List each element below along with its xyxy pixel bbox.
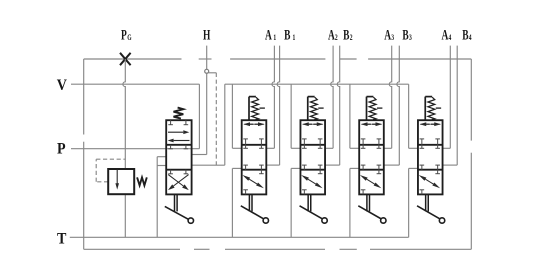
section 3 box2 top ticks [361,145,381,149]
svg-text:B: B [343,27,349,44]
svg-text:4: 4 [449,32,452,43]
relief valve spring [137,177,147,185]
label H [203,27,211,44]
wire relief pilot dashed [96,159,125,182]
section 3 box1 outward arrows [361,122,382,126]
section 4 box1 outward arrows [420,122,441,126]
section 1 lever arm [241,206,265,220]
label P [57,141,66,158]
section valve V1 body (3 positions) [242,120,267,194]
section valve V2 body (3 positions) [300,120,325,194]
section 3 return spring [367,97,383,121]
wire section 3 feed from V rail [350,84,359,148]
label A1 [265,27,276,44]
svg-text:3: 3 [409,32,412,43]
wire top rail segment 2 (H net) [199,58,212,60]
label B2 [343,27,353,44]
relief valve body [108,169,134,194]
section 2 box2 bottom ticks [302,165,322,170]
svg-text:A: A [442,27,449,44]
svg-text:B: B [402,27,408,44]
label B3 [402,27,412,44]
master box3 crossed arrows [168,175,189,191]
section 2 lever knob [322,218,327,223]
wire master right port to riser [192,164,225,166]
section 1 lever knob [263,218,268,223]
section 3 lever stem [367,194,370,211]
wire T rail [70,236,409,238]
wire V rail right segment [225,83,409,85]
wire top rail segment 5 [368,58,471,60]
section 2 lever arm [300,206,324,220]
wire top rail segment 1 (PG net) [84,58,182,60]
section 2 box2 top ticks [302,145,322,149]
wire A1 work line [266,46,274,149]
wire right frame vertical lower [470,153,472,250]
svg-text:1: 1 [273,32,276,43]
wire B3 work line [384,46,400,166]
svg-text:A: A [328,27,335,44]
svg-text:H: H [203,27,211,44]
section 1 box2 bottom ticks [243,165,263,170]
wire right frame vertical upper [470,59,472,141]
wire H vertical [206,73,208,154]
section valve V4 body (3 positions) [418,120,443,194]
svg-text:1: 1 [293,32,296,43]
label B4 [462,27,472,44]
wire B4 work line [443,46,458,166]
section 1 return spring [249,97,265,121]
wire section 2 feed from V rail [291,84,300,148]
section 4 lever stem [426,194,429,211]
wire H circle to pilot branch [209,72,217,74]
section 1 box1 outward arrows [243,122,264,126]
wire bottom rail seg5 [370,248,471,250]
svg-text:A: A [384,27,391,44]
wire H to master right port [192,154,207,156]
wire V-to-P drop [198,84,200,149]
section 3 box3 diagonal arrow [360,175,382,188]
master box1 arrow right [168,130,189,134]
master box2 ticks [168,145,188,149]
section 4 lever arm [417,206,441,220]
master spring [174,108,184,119]
wire H label line [206,46,208,70]
section 1 lever stem [249,194,252,211]
wire B2 work line [325,46,340,166]
svg-text:4: 4 [469,32,472,43]
wire V rail left segment [71,83,199,85]
wire top rail segment 4 [340,58,357,60]
plug X on PG line [120,53,131,65]
wire left frame vertical upper [83,59,85,135]
wire bottom rail seg1 [84,248,180,250]
svg-text:A: A [265,27,272,44]
label T [57,231,66,248]
master lever arm [165,206,190,219]
wire A2 work line [325,46,333,149]
section 4 box3 diagonal arrow [419,175,441,188]
section 1 box2 top ticks [243,145,263,149]
master valve body (3 positions) [166,120,191,194]
section 1 box3 diagonal arrow [242,175,264,188]
svg-text:2: 2 [335,32,338,43]
svg-text:G: G [127,32,132,43]
section 3 box2 bottom ticks [361,165,381,170]
label PG (gauge port) [121,27,132,44]
section 2 box1 outward arrows [302,122,323,126]
wire V chain riser [224,84,226,165]
section 2 lever stem [308,194,311,211]
wire H pilot dashed line [215,73,217,165]
wire section 1 drain to T rail [232,168,241,237]
svg-text:B: B [462,27,468,44]
section 3 box3 ticks [361,170,381,195]
node H plugged port circle [205,69,209,73]
wire section 1 feed from V rail [232,84,241,148]
wire bottom rail seg3 [225,248,325,250]
svg-text:V: V [57,77,67,94]
section 2 return spring [308,97,324,121]
relief valve flow arrow [115,170,119,190]
wire PG vertical (hops V rail) [123,59,125,169]
wire A4 work line [443,46,451,149]
label A4 [442,27,452,44]
master lever knob [188,218,193,223]
wire top rail segment 3 [230,58,325,60]
svg-text:P: P [121,27,127,44]
section 2 box3 ticks [302,170,322,195]
svg-text:T: T [57,231,66,248]
wire master left ports to drain [157,157,166,238]
label B1 [284,27,295,44]
section 4 lever knob [439,218,444,223]
wire bottom rail seg4 [340,248,357,250]
label V [57,77,67,94]
section 2 box1 bottom ticks [302,139,322,145]
section 4 box1 bottom ticks [420,139,440,145]
section 4 box3 ticks [420,170,440,195]
svg-text:B: B [284,27,290,44]
section 1 box1 bottom ticks [243,139,263,145]
section 4 box2 bottom ticks [420,165,440,170]
master box3 ticks [168,170,188,174]
section 4 return spring [425,97,441,121]
section 3 lever arm [358,206,382,220]
wire section 4 feed from V rail [409,84,418,148]
wire section 4 drain to T rail [409,168,418,237]
master box1 ticks [168,120,188,125]
wire section 3 drain to T rail [350,168,359,237]
label A2 [328,27,338,44]
wire section 2 drain to T rail [291,168,300,237]
wire P rail [71,148,199,150]
section 4 box2 top ticks [420,145,440,149]
wire A3 work line [384,46,392,149]
svg-text:3: 3 [391,32,394,43]
section 3 box1 bottom ticks [361,139,381,145]
wire bottom rail seg2 [194,248,210,250]
section valve V3 body (3 positions) [359,120,384,194]
wire left frame vertical lower [83,142,85,250]
label A3 [384,27,394,44]
section 2 box3 diagonal arrow [301,175,323,188]
master box1 arrow left [168,139,190,143]
wire relief outlet to T rail [124,194,126,237]
section 3 lever knob [381,218,386,223]
svg-text:P: P [57,141,66,158]
wire B1 work line [266,46,279,166]
svg-text:2: 2 [350,32,353,43]
master lever stem [175,194,178,211]
section 1 box3 ticks [243,170,263,195]
